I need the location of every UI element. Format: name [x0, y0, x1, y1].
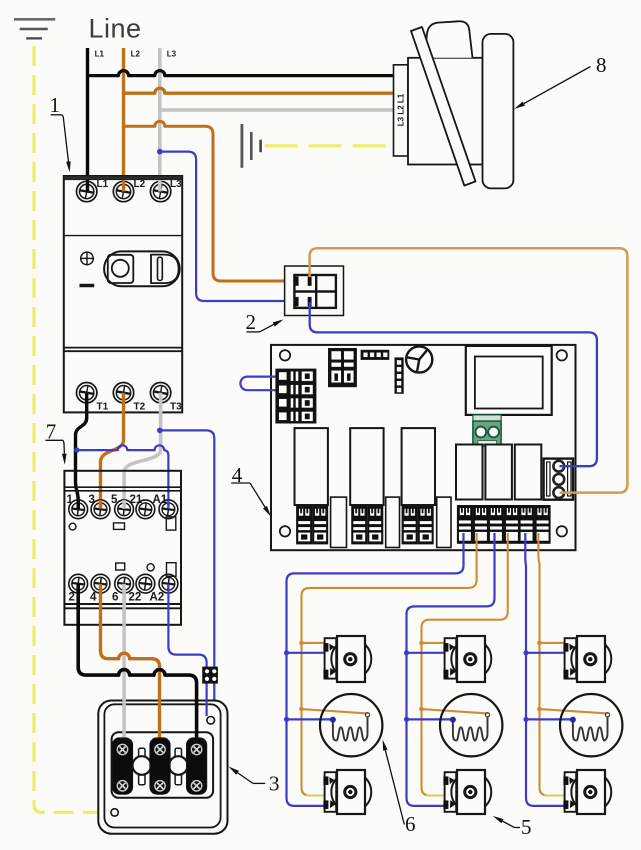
svg-text:L1: L1 — [95, 50, 105, 59]
svg-text:L1: L1 — [97, 179, 109, 190]
svg-text:T2: T2 — [134, 402, 146, 413]
svg-text:1: 1 — [67, 494, 74, 506]
svg-text:L3: L3 — [170, 179, 182, 190]
svg-text:6: 6 — [405, 812, 416, 836]
svg-text:3: 3 — [89, 494, 95, 506]
svg-text:1: 1 — [49, 93, 60, 117]
svg-text:T3: T3 — [170, 402, 182, 413]
svg-text:2: 2 — [245, 310, 256, 334]
svg-text:6: 6 — [112, 592, 118, 604]
svg-text:L3: L3 — [167, 50, 177, 59]
svg-text:L2: L2 — [131, 50, 141, 59]
svg-text:5: 5 — [111, 494, 118, 506]
svg-text:A1: A1 — [153, 494, 168, 506]
svg-text:21: 21 — [130, 494, 143, 506]
svg-text:L2: L2 — [134, 179, 146, 190]
svg-text:5: 5 — [521, 815, 532, 839]
svg-text:T1: T1 — [97, 402, 109, 413]
svg-text:3: 3 — [269, 772, 280, 796]
svg-text:L3 L2 L1: L3 L2 L1 — [397, 93, 406, 126]
svg-text:2: 2 — [69, 592, 75, 604]
svg-text:4: 4 — [90, 592, 97, 604]
svg-text:A2: A2 — [150, 592, 165, 604]
svg-text:8: 8 — [596, 53, 607, 77]
svg-text:Line: Line — [89, 14, 142, 44]
svg-text:22: 22 — [129, 592, 142, 604]
